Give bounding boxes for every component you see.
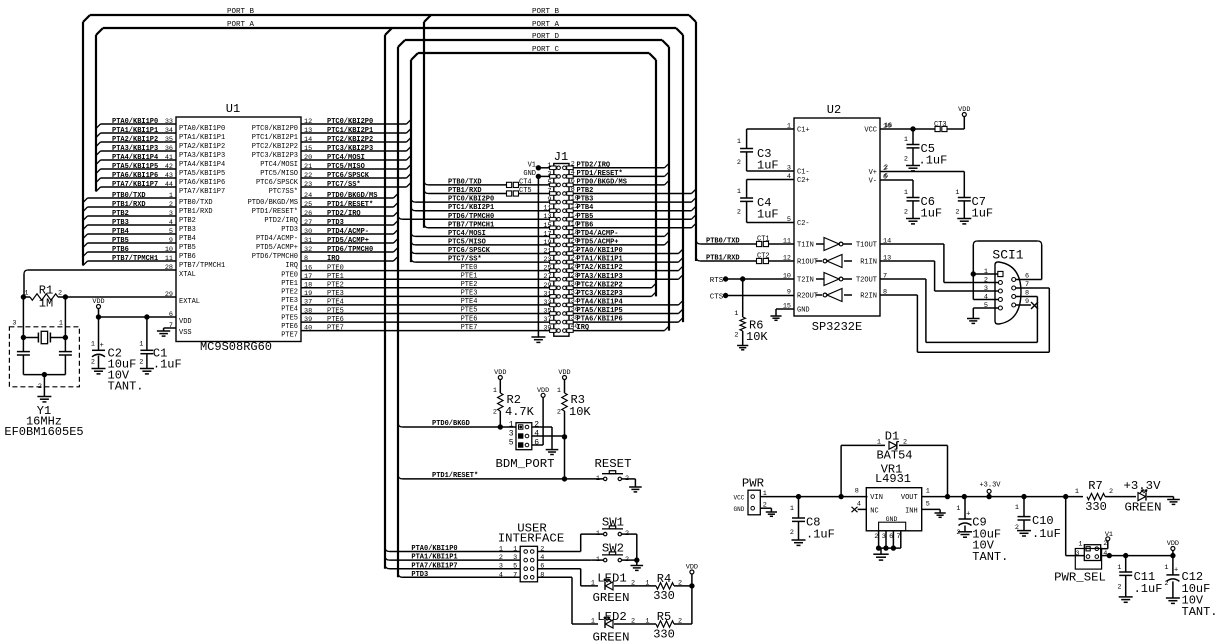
svg-text:27: 27 — [304, 219, 312, 227]
svg-text:8: 8 — [304, 255, 308, 263]
svg-text:1: 1 — [591, 580, 595, 588]
svg-text:PTA4/KBI1P4: PTA4/KBI1P4 — [577, 299, 623, 307]
svg-text:37: 37 — [304, 299, 312, 307]
svg-text:3: 3 — [1075, 550, 1079, 558]
svg-text:.1uF: .1uF — [806, 528, 835, 542]
svg-text:32: 32 — [304, 246, 312, 254]
svg-text:PTC0/KBI2P0: PTC0/KBI2P0 — [252, 125, 298, 133]
svg-text:PTB0/TXD: PTB0/TXD — [179, 199, 213, 207]
svg-text:2: 2 — [1164, 580, 1168, 588]
svg-text:330: 330 — [1085, 500, 1107, 514]
svg-text:11: 11 — [543, 205, 551, 213]
svg-text:2: 2 — [874, 533, 878, 541]
svg-text:R4: R4 — [657, 572, 671, 586]
svg-text:PTB5: PTB5 — [112, 237, 129, 245]
svg-text:GREEN: GREEN — [593, 631, 630, 644]
svg-text:PTA2/KBI1P2: PTA2/KBI1P2 — [112, 136, 158, 144]
svg-text:1: 1 — [790, 505, 794, 513]
svg-text:PTA7/KBI1P7: PTA7/KBI1P7 — [179, 188, 225, 196]
svg-text:2: 2 — [737, 159, 741, 167]
svg-text:2: 2 — [91, 359, 95, 367]
svg-text:PTE4: PTE4 — [281, 306, 298, 314]
svg-text:31: 31 — [304, 237, 312, 245]
svg-text:10K: 10K — [746, 330, 768, 344]
svg-text:PTA5/KBI1P5: PTA5/KBI1P5 — [179, 170, 225, 178]
svg-text:PTE6: PTE6 — [461, 315, 478, 323]
svg-text:5: 5 — [509, 439, 514, 448]
svg-text:2: 2 — [534, 421, 539, 430]
svg-text:PTA4/KBI1P4: PTA4/KBI1P4 — [179, 161, 225, 169]
svg-text:PTD1/RESET*: PTD1/RESET* — [327, 201, 373, 209]
svg-text:33: 33 — [543, 299, 551, 307]
svg-text:39: 39 — [543, 325, 551, 333]
svg-text:13: 13 — [304, 127, 312, 135]
svg-text:PTB3: PTB3 — [112, 219, 129, 227]
svg-text:PTE7: PTE7 — [461, 324, 478, 332]
svg-text:5: 5 — [547, 179, 551, 187]
svg-text:PTC2/KBI2P2: PTC2/KBI2P2 — [577, 281, 623, 289]
svg-text:5: 5 — [513, 563, 517, 571]
svg-text:PTE1: PTE1 — [281, 280, 298, 288]
svg-text:PTB0/TXD: PTB0/TXD — [706, 238, 740, 246]
svg-text:1: 1 — [904, 136, 908, 144]
svg-text:41: 41 — [165, 154, 173, 162]
svg-text:1: 1 — [493, 387, 497, 395]
svg-text:1: 1 — [955, 189, 959, 197]
svg-text:PTC5/MISO: PTC5/MISO — [327, 163, 365, 171]
svg-text:20: 20 — [304, 154, 312, 162]
svg-text:PTB4: PTB4 — [179, 235, 196, 243]
svg-text:43: 43 — [165, 172, 173, 180]
svg-text:4: 4 — [169, 219, 173, 227]
svg-text:2: 2 — [790, 529, 794, 537]
svg-text:PTC1/KBI2P1: PTC1/KBI2P1 — [327, 127, 373, 135]
svg-text:330: 330 — [653, 589, 675, 603]
svg-text:12: 12 — [304, 118, 312, 126]
svg-text:6: 6 — [884, 173, 888, 181]
svg-text:PTE6: PTE6 — [327, 316, 344, 324]
svg-text:1: 1 — [169, 192, 173, 200]
svg-text:PTA5/KBI1P5: PTA5/KBI1P5 — [577, 307, 623, 315]
svg-text:8: 8 — [855, 488, 859, 496]
svg-text:PTE0: PTE0 — [327, 264, 344, 272]
svg-text:PTC4/MOSI: PTC4/MOSI — [260, 161, 298, 169]
svg-text:1: 1 — [1117, 564, 1121, 572]
svg-text:PTD4/ACMP-: PTD4/ACMP- — [577, 230, 619, 238]
svg-text:PTC2/KBI2P2: PTC2/KBI2P2 — [327, 136, 373, 144]
svg-text:2: 2 — [737, 209, 741, 217]
svg-text:1: 1 — [1075, 488, 1079, 496]
svg-text:C1+: C1+ — [797, 127, 810, 135]
svg-text:9: 9 — [169, 237, 173, 245]
svg-text:T1IN: T1IN — [797, 242, 814, 250]
svg-text:PTE5: PTE5 — [461, 307, 478, 315]
svg-text:PTA1/KBI1P1: PTA1/KBI1P1 — [411, 554, 457, 562]
svg-text:VDD: VDD — [537, 387, 549, 395]
svg-text:2: 2 — [904, 209, 908, 217]
svg-text:2: 2 — [38, 383, 42, 391]
svg-text:V1: V1 — [1105, 531, 1113, 539]
svg-text:PTC3/KBI2P3: PTC3/KBI2P3 — [252, 152, 298, 160]
svg-text:1: 1 — [956, 505, 960, 513]
svg-text:30: 30 — [304, 228, 312, 236]
svg-text:+: + — [1174, 566, 1178, 574]
svg-text:PTB6: PTB6 — [179, 253, 196, 261]
svg-text:PTB7/TPMCH1: PTB7/TPMCH1 — [112, 255, 158, 263]
svg-text:PTD5/ACMP+: PTD5/ACMP+ — [256, 244, 298, 252]
svg-text:CTS: CTS — [710, 294, 724, 302]
svg-text:27: 27 — [543, 273, 551, 281]
svg-text:CT2: CT2 — [757, 253, 770, 261]
svg-text:1: 1 — [1164, 564, 1168, 572]
svg-text:CT1: CT1 — [757, 236, 770, 244]
svg-text:1: 1 — [596, 530, 600, 538]
svg-text:PTB1/RXD: PTB1/RXD — [706, 255, 740, 263]
svg-text:PTE4: PTE4 — [461, 298, 478, 306]
svg-text:V+: V+ — [869, 169, 877, 177]
svg-text:1: 1 — [645, 618, 649, 626]
svg-text:PTB3: PTB3 — [179, 226, 196, 234]
svg-text:2: 2 — [1117, 584, 1121, 592]
svg-text:35: 35 — [165, 136, 173, 144]
svg-text:2: 2 — [493, 409, 497, 417]
svg-text:EF0BM1605E5: EF0BM1605E5 — [4, 425, 83, 439]
svg-text:14: 14 — [304, 136, 312, 144]
svg-text:PTD5/ACMP+: PTD5/ACMP+ — [327, 237, 369, 245]
svg-text:BDM_PORT: BDM_PORT — [495, 457, 554, 471]
svg-text:PTA0/KBI1P0: PTA0/KBI1P0 — [112, 118, 158, 126]
svg-text:PWR_SEL: PWR_SEL — [1054, 571, 1106, 585]
svg-text:PTD3: PTD3 — [281, 226, 298, 234]
svg-text:3: 3 — [547, 170, 551, 178]
svg-text:PTB6: PTB6 — [112, 246, 129, 254]
svg-text:42: 42 — [165, 163, 173, 171]
svg-text:40: 40 — [304, 324, 312, 332]
svg-text:3: 3 — [513, 554, 517, 562]
svg-text:2: 2 — [557, 409, 561, 417]
svg-text:1: 1 — [737, 138, 741, 146]
svg-text:RTS: RTS — [710, 277, 724, 285]
svg-text:VIN: VIN — [870, 494, 883, 502]
svg-text:PTA3/KBI1P3: PTA3/KBI1P3 — [112, 145, 158, 153]
svg-text:19: 19 — [304, 290, 312, 298]
svg-text:1: 1 — [737, 188, 741, 196]
svg-text:PTB2: PTB2 — [179, 217, 196, 225]
svg-text:1uF: 1uF — [972, 207, 994, 221]
svg-text:PTA2/KBI1P2: PTA2/KBI1P2 — [577, 264, 623, 272]
svg-text:PTE2: PTE2 — [461, 281, 478, 289]
svg-text:1: 1 — [509, 421, 514, 430]
svg-text:1uF: 1uF — [921, 207, 943, 221]
svg-text:1uF: 1uF — [757, 159, 779, 173]
svg-text:PTC4/MOSI: PTC4/MOSI — [448, 230, 486, 238]
svg-text:4: 4 — [540, 554, 544, 562]
svg-text:29: 29 — [543, 282, 551, 290]
svg-text:PTA5/KBI1P5: PTA5/KBI1P5 — [112, 163, 158, 171]
svg-text:PTB4: PTB4 — [577, 204, 594, 212]
svg-text:1: 1 — [926, 488, 930, 496]
svg-text:C1-: C1- — [797, 169, 810, 177]
svg-text:PTC7/SS*: PTC7/SS* — [448, 256, 482, 264]
svg-text:PTA0/KBI1P0: PTA0/KBI1P0 — [577, 247, 623, 255]
svg-text:PTB0/TXD: PTB0/TXD — [112, 192, 146, 200]
svg-text:2: 2 — [499, 554, 503, 562]
svg-text:.1uF: .1uF — [919, 154, 948, 168]
svg-text:PTC0/KBI2P0: PTC0/KBI2P0 — [448, 196, 494, 204]
svg-text:39: 39 — [304, 316, 312, 324]
svg-text:R7: R7 — [1088, 479, 1102, 493]
svg-text:2: 2 — [169, 201, 173, 209]
svg-text:3: 3 — [882, 533, 886, 541]
svg-text:1: 1 — [1078, 541, 1082, 549]
svg-text:VCC: VCC — [734, 495, 745, 502]
svg-text:PTC2/KBI2P2: PTC2/KBI2P2 — [252, 143, 298, 151]
svg-text:GND: GND — [523, 170, 536, 178]
svg-text:PORT D: PORT D — [532, 33, 560, 41]
svg-text:GREEN: GREEN — [593, 591, 630, 605]
svg-text:13: 13 — [543, 213, 551, 221]
svg-text:PTE7: PTE7 — [281, 331, 298, 339]
svg-text:U1: U1 — [226, 102, 240, 116]
svg-text:PTB1/RXD: PTB1/RXD — [112, 201, 146, 209]
svg-text:PTB3: PTB3 — [577, 196, 594, 204]
svg-text:PTE2: PTE2 — [281, 289, 298, 297]
svg-text:PTD0/BKGD/MS: PTD0/BKGD/MS — [248, 199, 298, 207]
svg-text:25: 25 — [304, 201, 312, 209]
svg-text:PTA7/KBI1P7: PTA7/KBI1P7 — [411, 562, 457, 570]
svg-text:3: 3 — [169, 210, 173, 218]
svg-text:17: 17 — [304, 273, 312, 281]
svg-text:PTD2/IRQ: PTD2/IRQ — [264, 217, 298, 225]
svg-text:PTA1/KBI1P1: PTA1/KBI1P1 — [112, 127, 158, 135]
svg-text:3: 3 — [499, 563, 503, 571]
svg-text:PTE0: PTE0 — [281, 271, 298, 279]
svg-text:PTA0/KBI1P0: PTA0/KBI1P0 — [411, 545, 457, 553]
svg-text:CT3: CT3 — [934, 121, 947, 129]
svg-text:PWR: PWR — [742, 477, 765, 491]
svg-text:22: 22 — [304, 172, 312, 180]
svg-text:1: 1 — [904, 189, 908, 197]
svg-text:37: 37 — [543, 316, 551, 324]
svg-text:CT4: CT4 — [519, 179, 532, 187]
svg-text:PTC3/KBI2P3: PTC3/KBI2P3 — [327, 145, 373, 153]
svg-text:TANT.: TANT. — [1182, 605, 1218, 619]
svg-text:PTE3: PTE3 — [327, 290, 344, 298]
svg-text:6: 6 — [540, 563, 544, 571]
svg-text:PORT C: PORT C — [532, 46, 560, 54]
svg-text:16: 16 — [884, 122, 892, 130]
svg-text:PTB7/TPMCH1: PTB7/TPMCH1 — [448, 221, 494, 229]
svg-text:38: 38 — [304, 307, 312, 315]
svg-text:PTD2/IRQ: PTD2/IRQ — [327, 210, 361, 218]
svg-text:PTA6/KBI1P6: PTA6/KBI1P6 — [577, 316, 623, 324]
svg-text:1: 1 — [645, 580, 649, 588]
svg-text:24: 24 — [304, 192, 312, 200]
svg-text:GREEN: GREEN — [1125, 501, 1162, 515]
svg-text:T2OUT: T2OUT — [856, 277, 877, 285]
svg-text:PTC6/SPSCK: PTC6/SPSCK — [256, 179, 299, 187]
svg-text:PTE0: PTE0 — [461, 264, 478, 272]
svg-text:T1OUT: T1OUT — [856, 242, 877, 250]
svg-text:SCI1: SCI1 — [992, 248, 1023, 263]
svg-text:10: 10 — [165, 246, 173, 254]
svg-text:TANT.: TANT. — [108, 380, 144, 394]
svg-text:PORT A: PORT A — [227, 21, 255, 29]
svg-text:TANT.: TANT. — [972, 550, 1008, 564]
svg-text:8: 8 — [540, 571, 544, 579]
svg-text:PTE7: PTE7 — [327, 324, 344, 332]
svg-text:19: 19 — [543, 239, 551, 247]
svg-text:5: 5 — [169, 228, 173, 236]
svg-text:15: 15 — [543, 222, 551, 230]
svg-text:LED2: LED2 — [597, 610, 627, 624]
svg-text:V-: V- — [869, 178, 877, 186]
svg-text:1: 1 — [877, 439, 881, 447]
svg-text:VDD: VDD — [558, 369, 570, 377]
svg-text:INH: INH — [905, 508, 918, 516]
svg-text:7: 7 — [547, 188, 551, 196]
svg-text:PTB4: PTB4 — [112, 228, 129, 236]
svg-text:PTC1/KBI2P1: PTC1/KBI2P1 — [252, 134, 298, 142]
svg-text:PTD3: PTD3 — [411, 571, 428, 579]
svg-text:31: 31 — [543, 290, 551, 298]
svg-text:PTD6/TPMCH0: PTD6/TPMCH0 — [252, 253, 298, 261]
svg-text:J1: J1 — [554, 150, 568, 164]
svg-text:SW2: SW2 — [602, 542, 624, 556]
svg-text:PTE6: PTE6 — [281, 323, 298, 331]
svg-text:.1uF: .1uF — [1134, 582, 1163, 596]
svg-text:2: 2 — [139, 359, 143, 367]
svg-text:21: 21 — [304, 163, 312, 171]
svg-text:3: 3 — [509, 430, 514, 439]
svg-text:6: 6 — [889, 533, 893, 541]
svg-text:T2IN: T2IN — [797, 277, 814, 285]
svg-text:L4931: L4931 — [875, 472, 911, 486]
svg-text:1: 1 — [557, 387, 561, 395]
svg-text:23: 23 — [543, 256, 551, 264]
svg-text:PTD3: PTD3 — [327, 219, 344, 227]
svg-text:6: 6 — [534, 439, 539, 448]
svg-text:PORT A: PORT A — [532, 21, 560, 29]
svg-text:34: 34 — [165, 127, 173, 135]
svg-text:BAT54: BAT54 — [876, 449, 912, 463]
svg-text:PTE3: PTE3 — [461, 290, 478, 298]
svg-text:IRQ: IRQ — [577, 324, 590, 332]
svg-text:PTA3/KBI1P3: PTA3/KBI1P3 — [577, 273, 623, 281]
svg-text:PTA1/KBI1P1: PTA1/KBI1P1 — [179, 134, 225, 142]
svg-text:R1OUT: R1OUT — [797, 259, 818, 267]
svg-text:PTD1/RESET*: PTD1/RESET* — [252, 208, 298, 216]
svg-text:PTA7/KBI1P7: PTA7/KBI1P7 — [112, 181, 158, 189]
svg-text:R1IN: R1IN — [860, 259, 877, 267]
svg-text:PTA3/KBI1P3: PTA3/KBI1P3 — [179, 152, 225, 160]
svg-text:PTB1/RXD: PTB1/RXD — [179, 208, 213, 216]
svg-text:PTD1/RESET*: PTD1/RESET* — [577, 170, 623, 178]
svg-text:PTB2: PTB2 — [112, 210, 129, 218]
svg-text:LED1: LED1 — [597, 572, 627, 586]
svg-text:PTD0/BKGD/MS: PTD0/BKGD/MS — [577, 179, 627, 187]
svg-text:VDD: VDD — [1167, 540, 1179, 548]
svg-text:VOUT: VOUT — [901, 494, 918, 502]
svg-text:1: 1 — [513, 546, 517, 554]
svg-text:+: + — [100, 342, 104, 350]
svg-text:PTE1: PTE1 — [461, 272, 478, 280]
svg-text:PTE5: PTE5 — [327, 307, 344, 315]
svg-text:VSS: VSS — [179, 329, 192, 337]
svg-text:4: 4 — [1103, 550, 1107, 558]
svg-text:1: 1 — [91, 341, 95, 349]
svg-text:.1uF: .1uF — [1032, 527, 1061, 541]
svg-text:+: + — [966, 511, 970, 519]
svg-text:PTC5/MISO: PTC5/MISO — [448, 239, 486, 247]
svg-text:5: 5 — [926, 501, 930, 509]
svg-text:PTE1: PTE1 — [327, 273, 344, 281]
svg-text:PTD5/ACMP+: PTD5/ACMP+ — [577, 239, 619, 247]
svg-text:PTC6/SPSCK: PTC6/SPSCK — [448, 247, 491, 255]
svg-text:PORT B: PORT B — [532, 8, 560, 16]
svg-text:XTAL: XTAL — [179, 271, 196, 279]
svg-text:R2OUT: R2OUT — [797, 293, 818, 301]
svg-text:PTA1/KBI1P1: PTA1/KBI1P1 — [577, 256, 623, 264]
svg-text:R5: R5 — [657, 610, 671, 624]
svg-text:9: 9 — [547, 196, 551, 204]
svg-text:16: 16 — [304, 264, 312, 272]
svg-text:4.7K: 4.7K — [505, 405, 535, 419]
svg-text:C2+: C2+ — [797, 177, 810, 185]
svg-text:7: 7 — [897, 533, 901, 541]
svg-text:33: 33 — [165, 118, 173, 126]
svg-text:2: 2 — [904, 156, 908, 164]
svg-text:PTC7SS*: PTC7SS* — [269, 188, 298, 196]
svg-text:7: 7 — [513, 571, 517, 579]
svg-text:18: 18 — [304, 282, 312, 290]
svg-text:V1: V1 — [528, 161, 536, 169]
svg-text:PTD0/BKGD/MS: PTD0/BKGD/MS — [327, 192, 377, 200]
svg-text:NC: NC — [870, 508, 878, 516]
svg-text:PTA6/KBI1P6: PTA6/KBI1P6 — [179, 179, 225, 187]
svg-text:PTC0/KBI2P0: PTC0/KBI2P0 — [327, 118, 373, 126]
svg-text:PTE4: PTE4 — [327, 299, 344, 307]
svg-text:330: 330 — [653, 628, 675, 642]
svg-text:IRQ: IRQ — [285, 262, 298, 270]
svg-text:PTE3: PTE3 — [281, 297, 298, 305]
svg-text:PTB7/TPMCH1: PTB7/TPMCH1 — [179, 262, 225, 270]
svg-text:PTD4/ACMP-: PTD4/ACMP- — [327, 228, 369, 236]
svg-text:EXTAL: EXTAL — [179, 298, 200, 306]
svg-text:PTB2: PTB2 — [577, 187, 594, 195]
svg-text:1: 1 — [591, 618, 595, 626]
svg-text:15: 15 — [304, 145, 312, 153]
svg-text:2: 2 — [540, 546, 544, 554]
svg-text:R1: R1 — [39, 284, 53, 298]
svg-text:PTB5: PTB5 — [577, 213, 594, 221]
svg-text:PTA2/KBI1P2: PTA2/KBI1P2 — [179, 143, 225, 151]
svg-text:PTD0/BKGD: PTD0/BKGD — [432, 420, 470, 428]
svg-text:21: 21 — [543, 248, 551, 256]
svg-text:PTD2/IRQ: PTD2/IRQ — [577, 161, 611, 169]
svg-text:1: 1 — [596, 475, 600, 483]
svg-text:1M: 1M — [39, 297, 53, 311]
svg-text:4: 4 — [534, 430, 539, 439]
svg-text:1: 1 — [499, 546, 503, 554]
svg-text:PTC6/SPSCK: PTC6/SPSCK — [327, 172, 370, 180]
svg-text:PTC3/KBI2P3: PTC3/KBI2P3 — [577, 290, 623, 298]
svg-text:RESET: RESET — [595, 457, 632, 471]
svg-text:PTB1/RXD: PTB1/RXD — [448, 187, 482, 195]
svg-text:1: 1 — [139, 341, 143, 349]
svg-text:2: 2 — [734, 332, 738, 340]
svg-text:PTE5: PTE5 — [281, 314, 298, 322]
